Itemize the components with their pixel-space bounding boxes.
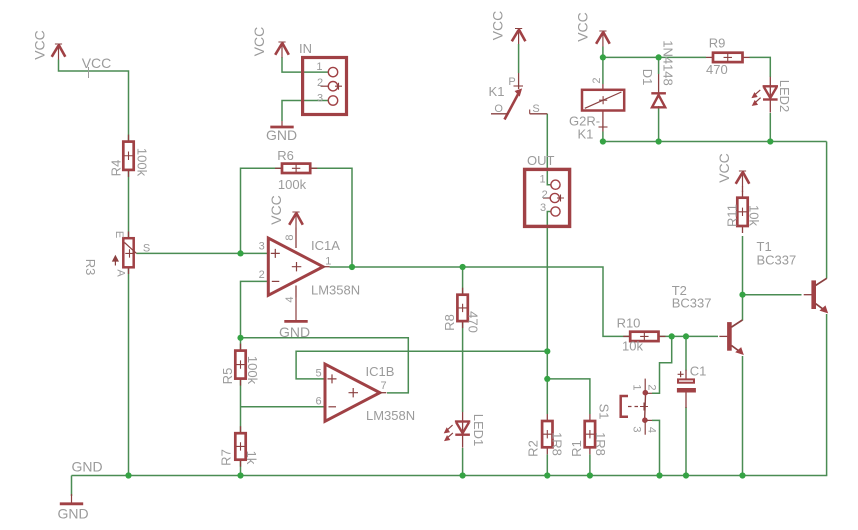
svg-text:R10: R10 <box>617 316 641 331</box>
wire VCC to relay coil <box>602 47 604 85</box>
svg-text:1: 1 <box>631 384 643 390</box>
ground GND at IN connector <box>266 121 297 143</box>
pin 2 of IN <box>317 77 342 91</box>
resistor R2 1R8 <box>526 414 565 457</box>
wire R10 to T2 base <box>659 335 719 337</box>
node R3 wiper / R6 <box>237 250 243 256</box>
wire node to R1 <box>547 379 590 414</box>
svg-text:1: 1 <box>316 61 322 73</box>
svg-text:R1: R1 <box>569 440 584 457</box>
wire R1 to rail <box>589 454 591 475</box>
svg-text:10k: 10k <box>747 205 762 226</box>
wire R7 to rail <box>240 460 242 476</box>
node IC1B feedback <box>237 335 243 341</box>
svg-text:K1: K1 <box>578 127 594 142</box>
svg-text:2: 2 <box>317 77 323 89</box>
wire R3 wiper S to IC1A pin 3 <box>137 252 269 254</box>
svg-text:GND: GND <box>266 127 297 143</box>
svg-text:1N4148: 1N4148 <box>661 40 676 86</box>
LED LED2 <box>752 77 792 113</box>
resistor R10 10k <box>617 316 666 354</box>
resistor R7 1k <box>219 426 260 467</box>
svg-text:BC337: BC337 <box>757 253 797 268</box>
svg-text:R5: R5 <box>220 368 235 385</box>
svg-text:8: 8 <box>284 234 296 240</box>
svg-text:D1: D1 <box>640 69 655 86</box>
svg-text:4: 4 <box>284 296 296 302</box>
svg-text:LED2: LED2 <box>777 80 792 113</box>
wire R9 to LED2 <box>750 57 771 77</box>
svg-text:2: 2 <box>542 189 548 201</box>
node rail / R2 <box>544 472 550 478</box>
switch K1 relay contact <box>489 73 548 120</box>
wire OUT pin 3 down to R2 <box>547 212 551 415</box>
wire top-right rail <box>603 141 827 143</box>
node rail / R7 <box>237 472 243 478</box>
transistor T2 BC337 <box>719 320 743 354</box>
wire node inverting feedback R6 left <box>241 168 283 253</box>
svg-text:VCC: VCC <box>251 27 267 57</box>
wire R11 to node <box>742 236 744 295</box>
svg-text:GND: GND <box>279 324 310 340</box>
svg-text:100k: 100k <box>278 177 307 192</box>
node R10 / S1 <box>669 333 675 339</box>
svg-text:4: 4 <box>645 427 657 433</box>
svg-text:470: 470 <box>466 311 481 333</box>
svg-text:S: S <box>532 103 539 115</box>
svg-text:O: O <box>494 103 503 115</box>
op-amp IC1B LM358N <box>325 364 386 421</box>
node rail / T2 emitter <box>739 472 745 478</box>
connector OUT <box>525 153 570 226</box>
wire T2 emitter to rail <box>742 356 744 476</box>
svg-text:470: 470 <box>706 62 728 77</box>
ground GND at IC1A pin 4 <box>279 298 310 341</box>
svg-text:VCC: VCC <box>716 153 732 183</box>
svg-text:3: 3 <box>540 202 546 214</box>
svg-text:2: 2 <box>645 384 657 390</box>
node IC1A output / R6 <box>349 264 355 270</box>
wire IN pin 3 to GND <box>282 101 328 122</box>
wire R6 right to IC1A output <box>310 168 352 267</box>
wire VCC to K1 contact P <box>518 44 520 73</box>
resistor R1 1R8 <box>569 414 608 457</box>
wire C1 to rail <box>685 407 687 476</box>
svg-text:1R8: 1R8 <box>550 432 565 456</box>
switch S1 <box>597 379 658 435</box>
wire S1 pin 4 to rail <box>652 420 660 475</box>
svg-text:VCC: VCC <box>490 11 506 41</box>
op-amp IC1A LM358N <box>268 238 329 295</box>
svg-text:10k: 10k <box>622 339 643 354</box>
pin 1 of OUT <box>539 173 560 189</box>
wire IC1B output feedback loop <box>241 338 409 393</box>
wire S1 pin 2 to R10 node <box>652 336 672 393</box>
svg-text:1: 1 <box>539 173 545 185</box>
wire node output to R8 <box>462 267 464 295</box>
capacitor C1 <box>677 364 706 409</box>
svg-text:K1: K1 <box>489 84 505 99</box>
wire T2 collector to node <box>742 295 744 321</box>
wire D1 anode down <box>658 109 660 142</box>
svg-text:E: E <box>113 231 125 238</box>
wire VCC rail to R9 <box>603 56 706 58</box>
potentiometer R3 <box>83 231 150 278</box>
svg-text:1: 1 <box>325 256 331 268</box>
svg-text:3: 3 <box>631 426 643 432</box>
svg-text:VCC: VCC <box>82 55 112 71</box>
resistor R5 100k <box>220 344 260 386</box>
resistor R8 470 <box>442 288 481 333</box>
wire R5 to R7 <box>240 379 242 434</box>
svg-text:IC1B: IC1B <box>366 364 395 379</box>
svg-text:3: 3 <box>317 92 323 104</box>
node sense / OUT line <box>544 348 550 354</box>
node rail / R1 <box>587 472 593 478</box>
svg-text:A: A <box>114 269 126 277</box>
svg-text:2: 2 <box>591 77 603 83</box>
node rail / S1 <box>656 472 662 478</box>
diode D1 1N4148 <box>640 40 676 108</box>
svg-text:IN: IN <box>299 41 312 56</box>
resistor R4 100k <box>109 135 150 177</box>
svg-text:100k: 100k <box>245 356 260 385</box>
wire R2 to rail <box>546 454 548 475</box>
node relay / top rail <box>600 138 606 144</box>
wire D1 cathode up <box>658 57 660 74</box>
svg-text:R4: R4 <box>109 160 124 177</box>
svg-text:S1: S1 <box>597 404 612 420</box>
power VCC top-left <box>32 30 66 60</box>
svg-text:VCC: VCC <box>575 12 591 42</box>
svg-text:5: 5 <box>315 368 321 380</box>
svg-text:LM358N: LM358N <box>366 408 415 423</box>
node rail / R3 <box>125 472 131 478</box>
pin 3 of OUT <box>540 202 560 216</box>
wire T1 emitter down to rail <box>826 314 828 476</box>
svg-text:VCC: VCC <box>32 30 48 60</box>
power VCC at relay <box>575 12 610 46</box>
wire node to C1 <box>685 336 687 370</box>
wire rail to GND symbol <box>71 476 73 497</box>
svg-text:R8: R8 <box>442 314 457 331</box>
svg-text:1k: 1k <box>244 451 259 465</box>
svg-text:R11: R11 <box>725 204 740 227</box>
svg-text:OUT: OUT <box>527 153 555 168</box>
svg-text:R3: R3 <box>83 259 98 276</box>
LED LED1 <box>445 412 486 448</box>
svg-text:2: 2 <box>259 269 265 281</box>
svg-text:BC337: BC337 <box>672 296 712 311</box>
svg-text:3: 3 <box>259 240 265 252</box>
node R10 / C1 <box>683 333 689 339</box>
svg-text:R2: R2 <box>526 440 541 457</box>
wire IC1B pin 6 <box>241 406 326 408</box>
node OUT line / R1 <box>544 376 550 382</box>
svg-text:100k: 100k <box>135 148 150 177</box>
wire LED1 to rail <box>462 448 464 476</box>
pin 2 of OUT <box>542 189 564 202</box>
node R11 / T2 / T1 base <box>739 292 745 298</box>
wire VCC to IN pin 1 <box>282 57 328 72</box>
wire IC1A output to R10 <box>330 267 631 336</box>
svg-text:6: 6 <box>315 396 321 408</box>
svg-text:IC1A: IC1A <box>311 238 340 253</box>
svg-text:R7: R7 <box>219 449 234 466</box>
wire R8 to LED1 <box>462 321 464 412</box>
wire T1 collector up <box>826 142 828 279</box>
wire LED2 to rail <box>769 113 771 142</box>
svg-text:GND: GND <box>71 459 102 475</box>
svg-text:P: P <box>508 76 515 88</box>
node LED2 / top rail <box>767 138 773 144</box>
resistor R11 10k <box>725 191 762 233</box>
node VCC / D1 / R9 <box>656 54 662 60</box>
svg-text:R9: R9 <box>709 36 726 51</box>
wire VCC top-left to R4 <box>59 60 129 142</box>
wire K1 S to OUT pin 1 <box>547 114 551 185</box>
power VCC at R11 <box>716 153 750 186</box>
resistor R9 470 <box>706 36 750 77</box>
node IC1A output / R8 <box>460 264 466 270</box>
svg-text:R6: R6 <box>277 148 294 163</box>
power VCC at IN connector <box>251 27 289 58</box>
svg-text:LM358N: LM358N <box>311 283 360 298</box>
wire ground rail <box>72 475 828 477</box>
svg-text:VCC: VCC <box>268 195 284 225</box>
svg-text:C1: C1 <box>690 364 707 379</box>
node rail / C1 <box>683 472 689 478</box>
wire relay coil to rail <box>602 132 604 142</box>
svg-text:7: 7 <box>380 380 386 392</box>
svg-text:1R8: 1R8 <box>593 432 608 456</box>
node rail / LED1 <box>460 472 466 478</box>
svg-text:GND: GND <box>57 506 88 522</box>
wire IC1A pin 2 down <box>241 281 269 350</box>
svg-text:S: S <box>143 243 150 255</box>
resistor R6 100k <box>275 148 317 192</box>
svg-text:LED1: LED1 <box>471 414 486 447</box>
ground GND bottom-left <box>57 494 88 522</box>
connector IN <box>299 41 347 115</box>
pin 3 of IN <box>317 92 338 105</box>
wire R4 to R3 <box>128 170 130 238</box>
power VCC at K1 <box>490 11 526 44</box>
wire R3 to ground rail <box>128 267 130 475</box>
relay coil K1 G2R <box>569 77 624 141</box>
wire node to T1 base <box>743 294 802 296</box>
wire IC1B pin 5 to sense line <box>296 351 547 379</box>
transistor T1 BC337 <box>804 278 828 312</box>
node VCC / relay / R9 <box>600 54 606 60</box>
node D1 / top rail <box>656 138 662 144</box>
pin 1 of IN <box>316 61 337 77</box>
power VCC at IC1A <box>268 195 303 227</box>
